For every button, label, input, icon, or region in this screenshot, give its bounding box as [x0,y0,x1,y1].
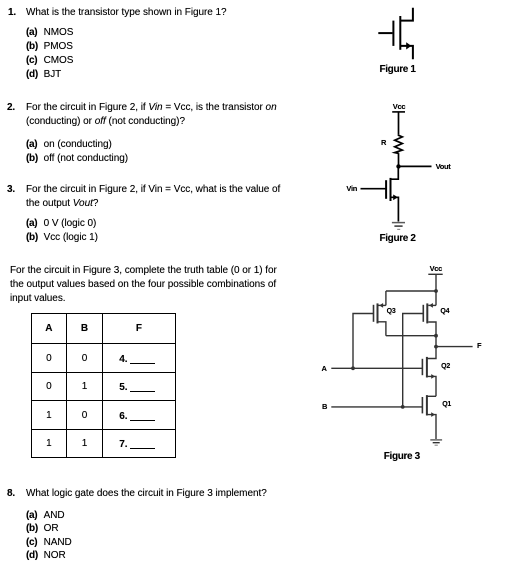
Q3 channel bar [377,303,379,323]
transistor Q4 source lead [428,304,436,306]
node Vcc junction [434,289,438,293]
Q1 source arrow [431,412,435,417]
wire Q4 source from node [435,291,437,305]
caption Figure 2 [380,232,416,245]
Q1 source lead [427,415,436,439]
source lead [391,197,399,221]
node drain rail junction [434,334,438,338]
Q4 drain lead [428,322,436,336]
Q3 drain lead [379,322,386,336]
wire node to Vout [399,165,432,167]
Q3 gate bar [373,305,375,322]
wire Vcc down [435,274,437,291]
wire F node to Q2 drain [427,347,436,359]
Question 1 [8,6,16,20]
Q4 channel bar [426,303,428,323]
label R [381,138,386,147]
Q1 drain lead [427,395,436,397]
Question 8 [7,487,15,501]
source arrow [406,42,411,49]
wire resistor to node [398,154,400,167]
ground symbol [430,439,442,441]
Q2 source lead [427,376,436,396]
ground symbol [392,222,405,224]
resistor R [395,134,403,154]
label Vcc (Figure 3) [430,264,442,273]
Q3 source arrow (PMOS, points left) [379,303,383,308]
gate bar [392,21,394,46]
Figure 3 intro paragraph [10,264,277,278]
F output wire [436,346,473,348]
transistor Q3 source lead [379,304,386,306]
wire Vcc to resistor [398,112,400,134]
label Q1 [442,400,451,409]
caption Figure 1 [380,63,416,76]
gate lead Vin [361,188,386,190]
Q2 source arrow [431,374,435,379]
node dot [396,164,400,168]
label Q2 [441,362,450,371]
drain lead [400,8,413,21]
label Q3 [387,307,396,316]
Q4 source arrow (PMOS, points left) [429,303,433,308]
source arrow [393,195,398,201]
Question 3 [7,183,15,197]
node A junction [351,366,355,370]
label F [477,341,481,350]
node B junction [401,405,405,409]
label Q4 [440,307,449,316]
Q4 gate bar [422,305,424,322]
top rail wire [386,290,436,292]
Q4 gate lead [403,314,424,407]
label Vin [346,184,357,193]
Q1 gate bar [421,397,423,413]
label B [322,402,327,411]
Q1 channel bar [426,395,428,415]
Q2 channel bar [426,357,428,378]
label Vcc (Figure 2) [393,102,405,111]
input B wire [331,406,422,408]
caption Figure 3 [384,450,420,463]
channel bar [399,16,401,50]
label Vout [436,162,451,171]
label A [322,364,327,373]
bottom rail wire [386,335,436,337]
input A wire [331,367,422,369]
channel bar [390,178,392,201]
Q3 gate lead [353,314,374,369]
transistor Q (Figure 1) gate lead [378,32,392,34]
wire to F node [435,336,437,347]
Q2 gate bar [421,359,423,375]
node F junction [434,345,438,349]
gate bar [385,180,387,199]
Truth table [31,313,176,458]
source lead [400,46,413,59]
Question 2 [7,101,15,115]
Vcc rail bar [392,111,405,113]
wire rail to Q3 source [385,291,387,305]
Vcc underline bar [428,273,442,275]
drain wire [391,166,399,179]
